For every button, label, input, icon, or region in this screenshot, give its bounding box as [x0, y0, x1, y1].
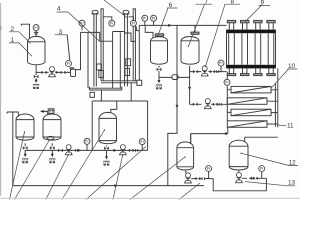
- agitator motor M1 on tank T1: [33, 25, 39, 31]
- wire jog channel C1 to C2: [81, 32, 124, 89]
- gauge PI6 header: [142, 15, 148, 21]
- column C2 inner tube: [133, 9, 136, 81]
- tank TE vessel: [99, 112, 117, 143]
- valve V12 under TD: [50, 146, 55, 149]
- label 5 leader from cropped top: [104, 0, 127, 18]
- scan artifact left edge: [0, 3, 1, 196]
- label 13 underline and leader: [245, 182, 295, 186]
- pump PE manifold: [119, 145, 127, 155]
- flange pair row 3: [219, 103, 221, 106]
- gauge PI10 coil inlet: [224, 79, 230, 85]
- gauge PI14 pump 13 row: [259, 166, 265, 172]
- wire column bottom U-bend: [89, 87, 121, 91]
- valve V11 under TC: [23, 146, 28, 149]
- motor box on TD: [48, 109, 54, 113]
- wire TD feed elbow: [41, 111, 48, 114]
- gauge PI3 near filter: [66, 61, 72, 67]
- node dot tank T12: [240, 153, 241, 154]
- wire gauge taps on columns: [103, 17, 133, 21]
- sparger ellipse in TD: [47, 136, 54, 139]
- valve V8 pump row 3: [213, 103, 218, 106]
- flange pair manifold: [136, 149, 138, 152]
- fitting inline capsule: [172, 75, 178, 80]
- wire manifold gauge stems: [87, 144, 142, 150]
- wire pump row 1: [36, 71, 70, 73]
- drain symbol under TD: [49, 159, 55, 163]
- wire TF outlet: [185, 171, 187, 173]
- flange box on riser: [90, 92, 94, 97]
- label 4 underline and leader: [57, 12, 100, 41]
- membrane top nozzles: [229, 23, 273, 30]
- flow arrow down TE drain: [105, 156, 108, 159]
- wire main condensate line to TF: [191, 134, 228, 144]
- svg-text:2: 2: [11, 26, 15, 33]
- gauge PI7 header: [151, 15, 157, 21]
- wire inner bottom connector to riser: [101, 81, 137, 83]
- tank T1 vessel: [28, 36, 46, 64]
- pump P9: [204, 99, 212, 109]
- membrane unit M9 frame: [227, 30, 276, 69]
- leader manifold pump PM1 to bottom edge: [46, 154, 69, 200]
- wire T6 elbow drain stub: [158, 77, 160, 80]
- wire coil left header: [227, 72, 231, 121]
- column C1 inner tube: [100, 9, 103, 81]
- label 3 underline: [55, 34, 68, 36]
- column C1 outer wall: [87, 32, 89, 88]
- flow arrow right on pump row 1: [56, 71, 59, 74]
- flange box column C2: [126, 59, 131, 66]
- flange pair row 2: [217, 70, 219, 73]
- svg-text:8: 8: [231, 0, 235, 5]
- wire coil right header stubs: [267, 90, 278, 124]
- label 2 underline and leader: [9, 32, 31, 44]
- valve V13 under TE: [104, 147, 109, 150]
- coil HX row 1: [231, 86, 271, 93]
- valve V17 pump 13 row: [253, 177, 258, 180]
- membrane bottom nozzles: [229, 68, 273, 73]
- valve V7 pump row 3: [193, 103, 198, 106]
- wire bottom manifold: [25, 149, 147, 151]
- drain symbol at T6 elbow: [156, 85, 162, 89]
- valve V3 pump row 1: [61, 71, 66, 74]
- leader gauge PI12 to bottom edge: [86, 147, 146, 200]
- wire jog channel C2: [124, 27, 139, 42]
- pump P8: [201, 66, 209, 76]
- valve V15 manifold left: [58, 149, 63, 152]
- column C2 outer wall: [119, 32, 121, 88]
- gauge PI11 manifold: [84, 138, 90, 144]
- svg-text:7: 7: [205, 0, 209, 5]
- filter F1 cartridge: [71, 69, 76, 77]
- valve V4 pump row 2: [193, 70, 198, 73]
- gauge PI2 on filter riser: [79, 20, 85, 26]
- leader TD to bottom edge: [15, 139, 51, 200]
- membrane bottom band: [227, 65, 276, 69]
- valve V16 pump F row: [196, 177, 201, 180]
- wire pump row 2 (to membrane): [190, 66, 227, 72]
- membrane top band: [227, 30, 276, 34]
- agitator M1 shaft and gland on T1: [34, 31, 38, 37]
- flow arrow left main condensate line: [223, 132, 226, 135]
- wire top header: [139, 21, 226, 25]
- wire riser from filter to gauge: [76, 26, 83, 69]
- wire T12 outlet: [238, 171, 240, 173]
- membrane tubes: [229, 33, 274, 65]
- column C2 tube and cap: [123, 14, 130, 87]
- flow arrow down TC drain: [24, 154, 27, 157]
- wire TB top stub: [194, 25, 196, 32]
- gauge PI5 column C2: [130, 20, 136, 26]
- wire membrane right side down to coil header: [275, 68, 277, 127]
- wire T6 outlet and elbow: [159, 66, 190, 78]
- coil HX row 2: [227, 98, 267, 105]
- flow arrow left pump13 suction side: [249, 177, 252, 180]
- tank TB vessel: [181, 37, 199, 65]
- gauge PI4 column C1: [109, 20, 115, 26]
- valve V1 under T1: [34, 75, 39, 78]
- label 10 underline and leader: [271, 69, 298, 88]
- wire coil outlet drop to main line: [227, 127, 229, 133]
- wire pump 13 discharge row: [242, 171, 267, 178]
- wire leader label3 to gauge: [67, 35, 70, 61]
- wire bottom U header: [213, 178, 266, 191]
- flow arrow down tall riser: [176, 105, 179, 108]
- manway cap T6: [155, 34, 163, 36]
- flow arrow right bottom manifold 2: [113, 149, 116, 152]
- valve V5 pump row 2: [210, 70, 215, 73]
- label 9 underline and leader: [245, 5, 270, 21]
- flow arrow down TB downcomer: [188, 87, 191, 90]
- leader TF to bottom edge: [130, 157, 185, 200]
- wire TD outlet: [51, 143, 53, 154]
- wire TE outlet to drain: [106, 145, 108, 157]
- wire T1 bottom outlet down: [35, 65, 37, 80]
- drain symbol under TE: [103, 161, 109, 165]
- wire bottom long line: [13, 112, 204, 186]
- pump P1: [48, 67, 56, 77]
- tank TD vessel: [43, 114, 61, 140]
- wire recirculation frame y101: [92, 101, 147, 150]
- wire pump row 3 (to coil): [190, 103, 228, 105]
- gauge PI8 row 2: [218, 60, 224, 66]
- wire TC feed elbow: [7, 112, 18, 116]
- flow arrow down T6 drain stub: [158, 80, 161, 83]
- wire T12 feed from coil right: [245, 137, 278, 142]
- tank TC vessel: [16, 114, 34, 140]
- svg-text:4: 4: [57, 6, 61, 13]
- scan artifact bottom edge: [0, 198, 300, 199]
- flow arrow down TD drain: [51, 154, 54, 157]
- leader TE to bottom edge: [62, 130, 105, 200]
- wire tall riser right of T6: [168, 25, 177, 185]
- tank TF vessel: [177, 142, 194, 170]
- flow arrow right top header: [168, 24, 171, 27]
- leader TC to bottom edge: [10, 132, 25, 200]
- pump PF under TF: [184, 173, 192, 183]
- leader pump PF to bottom edge: [179, 183, 200, 200]
- valve V2 pump row 1: [42, 71, 47, 74]
- label 8 underline and leader: [205, 4, 240, 67]
- valve V14 manifold: [129, 149, 134, 152]
- coil HX row 3: [231, 109, 271, 116]
- drain symbol under T1: [33, 85, 39, 89]
- gauge PI12 manifold riser: [139, 139, 145, 145]
- tank T6 vessel: [151, 37, 168, 65]
- leader pump PE to bottom edge: [113, 154, 123, 200]
- flow arrow right manifold: [78, 149, 81, 152]
- wire column drain drop: [101, 83, 131, 101]
- wire riser to top header: [138, 25, 140, 80]
- label 7 underline and leader: [188, 4, 212, 46]
- wire TC outlet: [24, 143, 26, 154]
- label 12 underline and leader: [241, 153, 298, 165]
- label 1 underline and leader: [9, 43, 32, 56]
- wire TB outlet downcomer: [189, 66, 191, 105]
- flange pair pump F row: [202, 177, 204, 180]
- manway cap TB: [191, 32, 199, 34]
- flow arrow right bottom long line: [114, 184, 117, 187]
- label 11 leader: [278, 124, 287, 127]
- wire pump F discharge row: [191, 171, 213, 178]
- svg-text:11: 11: [287, 122, 294, 129]
- tank T1 feed pipe elbow: [21, 24, 29, 38]
- flow arrow down T1 drain: [35, 80, 38, 83]
- gauge PI13 pump F row: [206, 166, 212, 172]
- drain symbol under TC: [22, 159, 28, 163]
- node dot tank TB: [188, 46, 189, 47]
- flange box column C1: [97, 64, 102, 70]
- wire T6 feed step: [145, 25, 153, 38]
- label 6 underline and leader: [158, 8, 178, 36]
- coil HX row 4: [227, 121, 267, 128]
- pump P13 under T12: [235, 173, 243, 183]
- flange box riser: [137, 80, 142, 85]
- flow arrow left TD feed: [40, 110, 43, 113]
- tank T12 vessel: [229, 140, 248, 170]
- flange pair manifold left: [76, 149, 78, 152]
- column C1 tube and cap: [92, 14, 99, 87]
- wire TE vent gooseneck: [111, 101, 117, 112]
- wire tank TF top stub: [190, 134, 192, 144]
- valve V10 under T6: [157, 68, 162, 71]
- pump PM1 manifold: [65, 145, 73, 155]
